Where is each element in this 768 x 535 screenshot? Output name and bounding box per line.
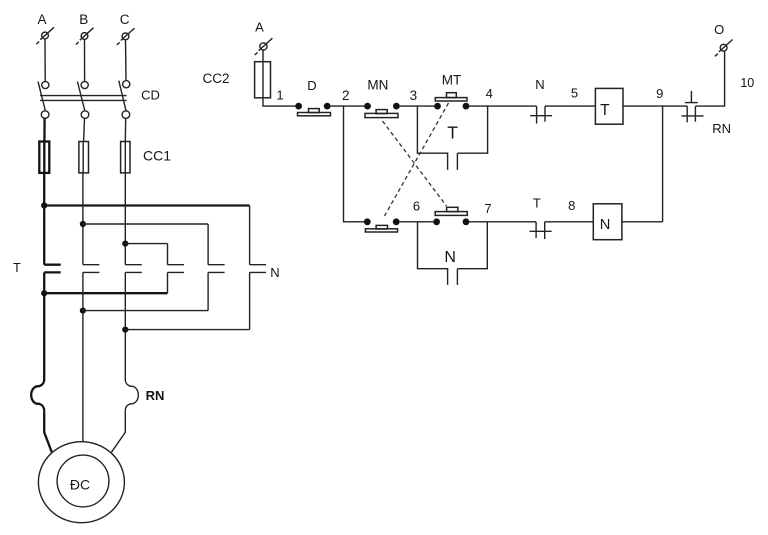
wire B terminal to CD bbox=[84, 40, 86, 82]
contact RN normally closed bbox=[681, 91, 703, 123]
svg-text:CC1: CC1 bbox=[143, 148, 171, 164]
wire bus A top bbox=[44, 204, 249, 206]
svg-text:RN: RN bbox=[146, 388, 165, 403]
terminal phase B bbox=[76, 28, 94, 45]
wire node 2 down bbox=[344, 106, 365, 222]
terminal phase A bbox=[36, 27, 54, 44]
wire CD to fuse A bbox=[43, 118, 45, 141]
contact N branch 2 bbox=[208, 224, 225, 311]
wire fuse B to contact bbox=[82, 173, 84, 265]
svg-text:7: 7 bbox=[484, 201, 491, 216]
wire contact N to coil T bbox=[545, 105, 595, 107]
wire CD to fuse B bbox=[83, 118, 86, 141]
thermal element RN phase A bbox=[31, 379, 44, 411]
contact N branch 3 bbox=[250, 206, 267, 330]
junction phase A bottom bbox=[41, 290, 47, 296]
switch CD linkage bar bbox=[40, 96, 127, 101]
svg-text:N: N bbox=[600, 217, 611, 233]
wire RN C to motor bbox=[112, 411, 126, 452]
wire RN contact to O bbox=[695, 51, 724, 106]
wire contact T to coil N bbox=[545, 221, 594, 223]
svg-text:4: 4 bbox=[486, 86, 493, 101]
svg-text:CC2: CC2 bbox=[202, 71, 229, 86]
wire contact B down bbox=[82, 272, 84, 441]
wire terminal to fuse CC2 bbox=[262, 50, 264, 62]
wire CD to fuse C bbox=[124, 118, 126, 141]
svg-text:N: N bbox=[535, 77, 544, 92]
wire A terminal to CD bbox=[44, 39, 46, 81]
svg-text:3: 3 bbox=[410, 88, 418, 103]
svg-text:T: T bbox=[13, 261, 21, 275]
svg-text:A: A bbox=[37, 12, 46, 27]
wire bus B bottom bbox=[83, 310, 208, 312]
wire bus B top bbox=[83, 223, 208, 225]
contact N branch 1 bbox=[168, 244, 185, 294]
wire contact A to RN bbox=[43, 272, 45, 379]
svg-text:O: O bbox=[714, 22, 724, 37]
interlock dashed MN to MT2 bbox=[383, 121, 447, 206]
interlock dashed MT to MN2 bbox=[385, 103, 449, 216]
junction phase B bottom bbox=[80, 308, 86, 314]
wire MT to contact N bbox=[469, 105, 536, 107]
motor DC inner circle bbox=[57, 455, 109, 507]
switch CD pole B bbox=[77, 81, 88, 118]
wire D to MN bbox=[331, 105, 365, 107]
svg-text:D: D bbox=[307, 78, 316, 93]
motor DC outer circle bbox=[38, 442, 124, 523]
svg-text:B: B bbox=[79, 12, 88, 27]
svg-text:C: C bbox=[120, 12, 130, 27]
svg-text:6: 6 bbox=[413, 198, 420, 213]
junction phase A top bbox=[41, 202, 47, 208]
pushbutton MT bbox=[434, 93, 469, 110]
pushbutton MN bbox=[364, 103, 400, 118]
svg-text:1: 1 bbox=[276, 88, 283, 103]
svg-text:MT: MT bbox=[442, 72, 462, 87]
wire fuse to D bbox=[263, 98, 295, 106]
thermal element RN phase C bbox=[125, 379, 138, 411]
svg-text:CD: CD bbox=[141, 88, 160, 103]
contact T phase B bbox=[83, 265, 100, 273]
wire MT2 to contact T bbox=[469, 221, 536, 223]
svg-text:8: 8 bbox=[568, 198, 575, 213]
svg-text:T: T bbox=[600, 102, 610, 119]
terminal O bbox=[715, 40, 733, 57]
contact T normally closed bbox=[530, 222, 552, 239]
wire fuse A to contact bbox=[43, 173, 45, 265]
svg-text:10: 10 bbox=[740, 76, 754, 90]
auxiliary contact N branch bbox=[418, 222, 488, 285]
terminal A control bbox=[255, 38, 273, 55]
fuse CC1 phase C bbox=[121, 142, 130, 173]
svg-text:9: 9 bbox=[656, 86, 663, 101]
wire bus C top bbox=[125, 243, 167, 245]
switch CD pole C bbox=[119, 81, 130, 119]
svg-text:N: N bbox=[270, 265, 279, 280]
svg-text:RN: RN bbox=[712, 121, 731, 136]
coil T bbox=[595, 88, 623, 124]
wire fuse C to contact bbox=[124, 173, 126, 265]
junction phase C bottom bbox=[122, 327, 128, 333]
wire C terminal to CD bbox=[125, 40, 128, 80]
pushbutton MT lower bbox=[433, 207, 469, 225]
junction phase B top bbox=[80, 221, 86, 227]
svg-text:T: T bbox=[447, 123, 458, 143]
wire node 9 down bbox=[662, 106, 664, 222]
contact T phase C bbox=[125, 265, 142, 273]
wire through fuse CC2 bbox=[262, 62, 264, 98]
wire coil N to node 9 bbox=[622, 221, 663, 223]
contact T phase A bbox=[44, 265, 61, 273]
coil N bbox=[593, 204, 622, 240]
svg-text:MN: MN bbox=[367, 77, 388, 92]
wire bus C bottom bbox=[125, 329, 249, 331]
svg-text:ĐC: ĐC bbox=[70, 477, 90, 493]
wire MN2 to MT2 bbox=[400, 221, 434, 223]
pushbutton MN lower bbox=[364, 218, 400, 232]
contact N normally closed bbox=[530, 106, 552, 124]
svg-text:2: 2 bbox=[342, 88, 350, 103]
svg-text:A: A bbox=[255, 20, 264, 35]
wire bus A bottom bbox=[44, 292, 167, 294]
wire coil T to RN contact bbox=[623, 105, 687, 107]
svg-text:N: N bbox=[444, 249, 456, 266]
terminal phase C bbox=[117, 28, 135, 45]
auxiliary contact T branch bbox=[417, 106, 487, 170]
pushbutton D bbox=[295, 103, 330, 116]
wire MN to MT bbox=[400, 105, 434, 107]
fuse CC2 bbox=[255, 62, 271, 98]
fuse CC1 phase B bbox=[79, 142, 89, 173]
wire contact C to RN bbox=[124, 272, 126, 379]
wire RN A to motor bbox=[44, 411, 52, 452]
svg-text:5: 5 bbox=[571, 86, 578, 101]
switch CD pole A bbox=[38, 81, 49, 118]
svg-text:T: T bbox=[533, 195, 541, 210]
fuse CC1 phase A bbox=[39, 142, 49, 173]
junction phase C top bbox=[122, 241, 128, 247]
